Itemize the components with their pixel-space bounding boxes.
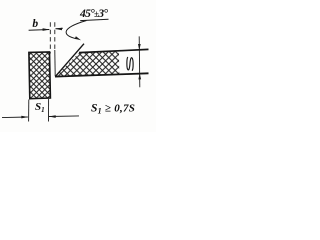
plate S bevel edge (45°) [55,44,84,77]
dimension S: lower arrowhead (points up to bottom edge) [138,73,141,79]
dimension S1: left arrowhead [21,116,28,119]
dimension b: right arrow shaft [56,27,63,30]
leader arc from 45° label to bevel [66,21,86,39]
dimension S1: right extension line [48,99,50,122]
svg-text:b: b [32,18,38,30]
dimension b: left extension line (dashed) [49,22,51,53]
dimension b: left arrowhead [43,28,50,31]
plate S1 (left vertical member, crosshatched) [29,52,51,99]
dimension S1: left arrow shaft [2,116,28,119]
label 45° underline [80,19,108,20]
svg-text:45°±3°: 45°±3° [79,8,108,20]
plate S bottom edge [55,73,149,76]
plate S top edge [79,49,149,52]
dimension S: upper arrowhead (points down to top edge) [138,44,141,50]
svg-text:S1 ≥ 0,7S: S1 ≥ 0,7S [91,102,135,115]
dimension b: right extension line (dashed upper part) [54,22,56,50]
dimension S1: right arrowhead [49,115,56,118]
dimension b: left arrow shaft with label underline [29,29,50,32]
leader arrowhead at bevel [75,36,81,40]
plate S (right horizontal member, crosshatch fill) [56,51,120,76]
dimension S1: left extension line [28,100,30,122]
dimension S: vertical dimension line [138,36,141,87]
dimension b: right arrowhead [55,28,62,31]
dimension b: right extension line (solid lower part to root corner) [54,50,56,76]
label S (rotated) [127,57,133,70]
dimension S1: right arrow shaft [49,115,79,118]
